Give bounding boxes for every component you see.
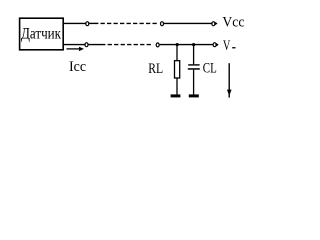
svg-text:Датчик: Датчик — [21, 25, 61, 42]
svg-text:Icc: Icc — [69, 59, 86, 75]
svg-text:Vcc: Vcc — [222, 14, 244, 30]
svg-text:V: V — [223, 38, 231, 54]
svg-text:CL: CL — [203, 60, 217, 76]
svg-text:RL: RL — [148, 61, 163, 77]
